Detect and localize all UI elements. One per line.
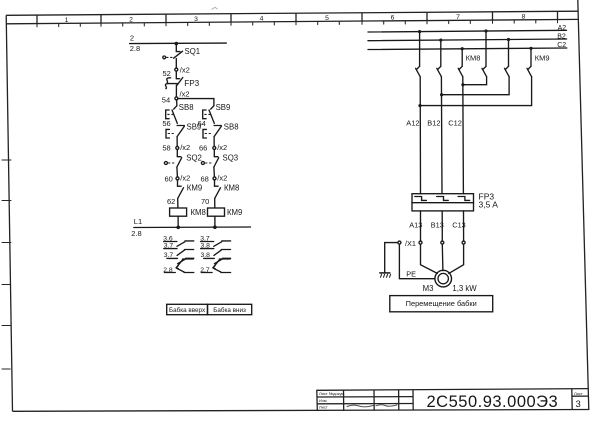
KM9 aux contact ref row 3.8a: [201, 243, 231, 256]
wire: KM9 pole2 out, cross to phase B12: [442, 77, 510, 95]
node: C2 tap for KM8 pole 3: [461, 47, 464, 50]
connector X1 pin phase C: [462, 241, 465, 244]
thermal overload relay FP3 body: [412, 191, 498, 211]
svg-text:Лист №докум.: Лист №докум.: [319, 391, 345, 396]
signature squiggles: [347, 405, 373, 407]
pushbutton SB8 NO contact (left branch): [166, 103, 194, 123]
svg-text:/x2: /x2: [180, 174, 190, 183]
sheet cell header line: [572, 395, 588, 397]
svg-text:2: 2: [129, 17, 133, 24]
KM8 aux contact ref row 3.7a: [164, 243, 194, 256]
pin /x2 (node 54) at branch split junction: [175, 97, 178, 100]
CONTROL LADDER: [130, 34, 252, 315]
right border: [578, 0, 589, 410]
svg-text:С13: С13: [452, 221, 465, 230]
wire: SQ1 to pin 52: [175, 59, 177, 69]
svg-text:2.8: 2.8: [130, 44, 140, 53]
KM9 aux contact ref row 3.7: [200, 236, 230, 247]
svg-text:/X1: /X1: [405, 239, 416, 248]
wire: coil KM9 to bus L1: [214, 216, 216, 227]
KM8 aux contact ref row 3.7b: [164, 252, 194, 264]
connector X1 pin phase B: [441, 241, 444, 244]
thermal contact FP3: [165, 78, 199, 89]
wire: drop to SQ1: [175, 44, 177, 52]
wire: left branch top lead: [176, 100, 178, 106]
wire: FP3 out phase B13: [441, 211, 443, 241]
coil KM9: [208, 208, 243, 217]
svg-text:3: 3: [576, 399, 581, 410]
node: KM8 coil junction on L1: [176, 226, 180, 230]
svg-text:SQ3: SQ3: [223, 154, 239, 163]
left border: [6, 15, 12, 411]
title block tiny texts: [319, 391, 345, 410]
function caption box: babka up: [167, 304, 208, 314]
pin /x2 (node 60): [176, 177, 179, 180]
wire: drop to KM9 pole 2: [508, 40, 510, 67]
wire: phase bus A2: [368, 30, 567, 32]
wire: top bus line 2: [130, 42, 227, 45]
wire: motor lead phase B: [441, 244, 444, 271]
limit switch SQ3: [201, 154, 238, 168]
svg-text:52: 52: [163, 69, 171, 78]
svg-text:1,3 kW: 1,3 kW: [452, 284, 477, 293]
wire: FP3 out phase C13: [463, 211, 465, 241]
pushbutton SB9 NC contact (left branch): [166, 122, 201, 138]
svg-text:КМ9: КМ9: [535, 53, 550, 62]
wire: pin 60 to KM9 contact: [177, 180, 179, 186]
wire: SQ2 to pin 60: [176, 167, 179, 177]
bottom border: [13, 410, 590, 412]
left border row ticks: [2, 160, 11, 369]
limit switch SQ2: [164, 154, 202, 168]
wire: SB8 to pin 66: [213, 137, 215, 147]
svg-text:А2: А2: [558, 25, 567, 32]
wire: pin 66 to SQ3: [213, 149, 215, 156]
function caption box: babka down: [208, 304, 252, 314]
svg-text:КМ8: КМ8: [191, 208, 206, 217]
svg-text:Бабка вниз: Бабка вниз: [213, 306, 246, 314]
pin /x2 (node 58): [176, 146, 179, 149]
wire: KM9 pole1 out, cross to phase C12: [463, 77, 487, 85]
title block row line 2: [317, 403, 413, 405]
KM9 aux contact ref row 3.8b: [201, 252, 231, 264]
svg-text:/x2: /x2: [217, 143, 227, 152]
svg-text:7: 7: [456, 14, 460, 21]
svg-text:8: 8: [522, 14, 526, 21]
svg-text:6: 6: [391, 15, 395, 22]
svg-text:В13: В13: [431, 221, 444, 230]
svg-text:62: 62: [167, 197, 175, 206]
interlock contact KM9 (left branch): [178, 184, 203, 199]
wire: motor lead phase C: [449, 244, 464, 273]
wire: pin 58 to SQ2: [176, 149, 178, 156]
limit switch SQ1: [163, 47, 200, 59]
ground earth electrode: [379, 273, 390, 277]
svg-text:PE: PE: [406, 270, 416, 279]
svg-text:70: 70: [201, 197, 209, 206]
svg-text:/x2: /x2: [180, 143, 190, 152]
svg-text:М3: М3: [423, 284, 434, 293]
svg-text:Бабка вверх: Бабка вверх: [169, 306, 206, 314]
wire: split bar to right branch: [178, 99, 214, 106]
svg-text:2.8: 2.8: [131, 229, 141, 238]
top center stray mark: [212, 7, 218, 9]
svg-text:58: 58: [162, 144, 170, 153]
wire: A12 down to FP3: [419, 77, 421, 194]
top ruler band upper line: [6, 11, 578, 15]
svg-text:С2: С2: [557, 42, 566, 49]
wire: PE conductor to motor frame: [399, 244, 435, 279]
svg-text:1: 1: [65, 17, 69, 24]
svg-text:А12: А12: [406, 119, 419, 128]
wire: SB9 to pin 58: [176, 137, 178, 147]
svg-text:Лист: Лист: [319, 405, 328, 410]
svg-text:В2: В2: [557, 33, 566, 40]
node: A2 tap for KM9 pole 1: [484, 29, 487, 32]
svg-text:КМ9: КМ9: [187, 184, 202, 193]
title block column dividers: [344, 389, 573, 411]
wire: drop to KM8 pole 1: [419, 32, 421, 67]
title block outline: [317, 389, 588, 411]
node: B2 tap for KM9 pole 2: [507, 38, 510, 41]
wire: phase bus B2: [368, 39, 567, 41]
contactor KM9 pole 3: [527, 66, 532, 76]
POWER CIRCUIT: [368, 25, 567, 312]
svg-text:КМ8: КМ8: [466, 53, 481, 62]
contactor KM8 pole 3: [458, 66, 463, 76]
svg-text:56: 56: [162, 119, 170, 128]
KM9 changeover aux contact ref row 2.7: [200, 259, 230, 274]
wire: FP3 to pin 54: [175, 85, 177, 97]
svg-text:3: 3: [194, 16, 198, 23]
wire: pin 52 to FP3: [175, 71, 177, 79]
node: junction of SQ1 drop on top bus: [175, 42, 179, 46]
svg-text:2: 2: [130, 34, 134, 43]
pushbutton SB9 NO contact (right branch): [203, 103, 231, 123]
contactor KM8 pole 1: [416, 66, 421, 76]
wire: B12 down to FP3: [440, 77, 443, 194]
KM8 changeover aux contact ref row 2.8: [163, 259, 194, 274]
svg-text:SB9: SB9: [216, 103, 231, 112]
svg-text:С12: С12: [448, 119, 462, 128]
wire: drop to KM8 pole 3: [461, 49, 463, 67]
wire: KM8 contact to coil KM9: [214, 198, 216, 207]
svg-text:SQ2: SQ2: [186, 154, 202, 163]
wire: drop to KM9 pole 1: [485, 31, 487, 66]
wire: SQ3 to pin 68: [213, 167, 216, 177]
node: junction on wire B12: [440, 93, 443, 96]
pushbutton SB8 NC contact (right branch): [203, 122, 239, 138]
node: B2 tap for KM8 pole 2: [439, 39, 442, 42]
svg-text:/x2: /x2: [180, 90, 190, 99]
function caption box: movement of headstock: [390, 296, 493, 312]
connector X1 pin PE: [398, 241, 401, 244]
svg-text:5: 5: [325, 15, 329, 22]
pin /x2 (node 66): [213, 146, 216, 149]
ruler numbers: [65, 14, 526, 25]
svg-text:68: 68: [201, 175, 209, 184]
node: C2 tap for KM9 pole 3: [529, 47, 532, 50]
wire: drop to KM8 pole 2: [440, 40, 442, 66]
KM8 aux contact ref row 3.6: [163, 236, 194, 247]
svg-text:2С550.93.000Э3: 2С550.93.000Э3: [427, 393, 559, 411]
svg-text:/x2: /x2: [180, 65, 190, 74]
svg-text:В12: В12: [427, 119, 440, 128]
contactor KM9 pole 1: [482, 66, 487, 76]
svg-text:54: 54: [162, 96, 170, 105]
node: KM9 coil junction on L1: [213, 225, 217, 229]
wire: drop to KM9 pole 3: [530, 48, 532, 66]
contactor KM8 pole 2: [437, 66, 442, 76]
svg-text:66: 66: [199, 144, 207, 153]
svg-text:SB8: SB8: [179, 103, 194, 112]
svg-text:SQ1: SQ1: [185, 47, 201, 56]
svg-text:60: 60: [165, 175, 173, 184]
TITLEBLOCK: [317, 389, 588, 411]
wire: motor lead phase A: [421, 244, 438, 273]
pin /x2 (node 52): [175, 68, 178, 71]
ruler cell dividers: [37, 11, 558, 23]
wire: coil KM8 to bus L1: [177, 216, 179, 227]
wire: X1 PE pin to earth: [385, 243, 398, 273]
svg-text:4: 4: [260, 16, 264, 23]
svg-text:КМ9: КМ9: [227, 208, 242, 217]
wire: C12 down to FP3: [462, 77, 465, 194]
pin /x2 (node 68): [213, 177, 216, 180]
svg-text:L1: L1: [134, 217, 142, 226]
interlock contact KM8 (right branch): [215, 184, 240, 199]
svg-text:Лист: Лист: [574, 391, 583, 396]
wire: phase bus C2: [368, 48, 567, 50]
wire: FP3 out phase A13: [420, 211, 422, 241]
node: A2 tap for KM8 pole 1: [418, 30, 421, 33]
svg-text:FP3: FP3: [184, 79, 199, 88]
svg-text:/x2: /x2: [217, 174, 227, 183]
svg-text:3,5 A: 3,5 A: [479, 200, 499, 210]
node: junction on wire A12: [418, 104, 421, 107]
wire: bottom bus L1: [134, 226, 251, 229]
svg-text:Изм.: Изм.: [319, 398, 328, 403]
wire: KM9 contact to coil KM8: [177, 198, 179, 207]
svg-text:64: 64: [198, 119, 206, 128]
svg-text:КМ8: КМ8: [224, 184, 239, 193]
top ruler band lower line: [6, 19, 579, 23]
ruler minor ticks: [37, 20, 558, 27]
title block row line 1: [317, 396, 413, 398]
svg-text:А13: А13: [409, 221, 422, 230]
wire: KM9 pole3 out, cross to phase A12: [420, 77, 532, 106]
motor M3: [423, 270, 478, 293]
contactor KM9 pole 2: [505, 66, 510, 76]
svg-text:Перемещение бабки: Перемещение бабки: [406, 299, 477, 308]
node: junction on wire C12: [461, 83, 464, 86]
coil KM8: [170, 208, 206, 217]
connector X1 pin phase A: [419, 241, 422, 244]
wire: pin 68 to KM8 contact: [214, 180, 216, 186]
svg-text:SB8: SB8: [224, 122, 239, 131]
